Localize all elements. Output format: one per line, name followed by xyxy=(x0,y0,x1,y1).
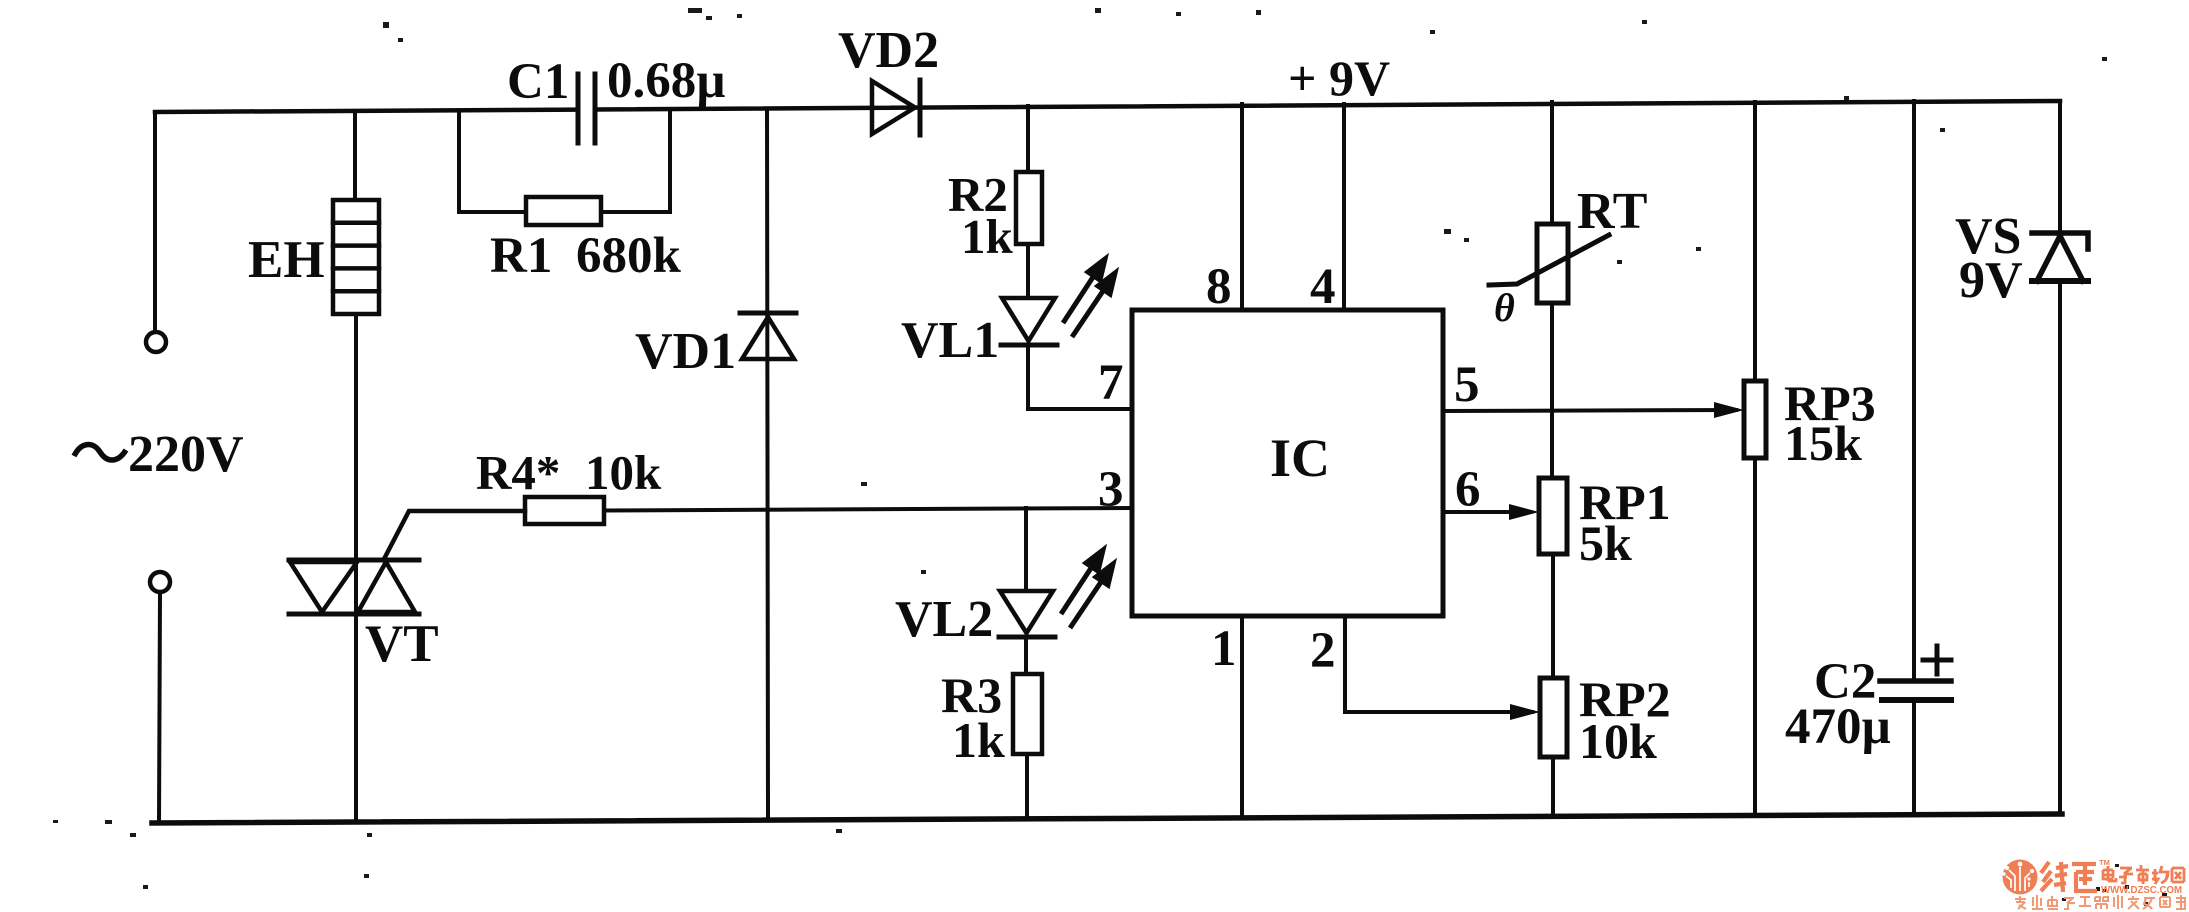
potentiometer RP2 xyxy=(1540,678,1567,757)
svg-text:VT: VT xyxy=(365,615,439,673)
svg-text:220V: 220V xyxy=(128,426,244,483)
thermistor RT lead from top bus xyxy=(1550,102,1554,224)
LED VL2 light arrows xyxy=(1061,550,1113,628)
wire R3 to bottom bus xyxy=(1025,754,1029,818)
svg-text:5k: 5k xyxy=(1579,515,1632,571)
wire EH top lead xyxy=(353,111,357,200)
wire R4 to pin 3 xyxy=(604,508,1132,511)
wire RT to RP1 xyxy=(1550,303,1554,478)
svg-text:2: 2 xyxy=(1310,623,1336,679)
watermark text dianzishichangwang xyxy=(2103,865,2184,884)
wire pin 8 xyxy=(1240,104,1244,310)
svg-text:1: 1 xyxy=(1211,621,1237,677)
svg-text:8: 8 xyxy=(1206,259,1232,315)
arrow pin5 into RP3 xyxy=(1714,402,1744,418)
wire top bus right segment xyxy=(595,101,2060,110)
wire bottom bus xyxy=(152,814,2062,823)
diode VD1 xyxy=(740,313,796,359)
wire VL2 to R3 xyxy=(1024,637,1028,674)
wire EH bottom through triac to bottom bus xyxy=(354,314,358,822)
wire pin 6 to RP1 xyxy=(1443,510,1530,514)
LED VL1 light arrows xyxy=(1063,259,1115,337)
svg-text:WWW.DZSC.COM: WWW.DZSC.COM xyxy=(2101,885,2182,896)
svg-text:IC: IC xyxy=(1270,428,1330,488)
wire C1 right parallel branch xyxy=(601,110,670,212)
svg-text:10k: 10k xyxy=(585,445,662,500)
wire C1 left parallel branch xyxy=(459,111,526,212)
node lower AC terminal xyxy=(150,572,170,592)
svg-text:1k: 1k xyxy=(961,209,1014,264)
wire pin 5 to RP3 xyxy=(1443,410,1736,411)
C2 polarity plus sign xyxy=(1923,646,1951,674)
svg-text:C1: C1 xyxy=(507,54,569,110)
svg-text:R4*: R4* xyxy=(476,445,560,500)
svg-text:5: 5 xyxy=(1454,357,1480,413)
LED VL1 xyxy=(1001,298,1057,345)
diode VD2 xyxy=(872,80,920,135)
wire pin 1 xyxy=(1240,616,1244,818)
label ~220V xyxy=(74,445,126,460)
resistor R2 xyxy=(1016,172,1042,244)
heater EH xyxy=(333,200,379,314)
wire R2 top lead xyxy=(1026,106,1030,172)
wire RP3 top lead xyxy=(1753,102,1757,381)
wire VS to bottom bus xyxy=(2058,281,2062,814)
svg-text:4: 4 xyxy=(1310,259,1336,315)
wire C2 top lead xyxy=(1912,101,1916,681)
svg-text:1k: 1k xyxy=(952,712,1005,768)
svg-text:VD2: VD2 xyxy=(838,22,939,79)
capacitor C2 plates xyxy=(1880,681,1951,700)
resistor R3 xyxy=(1013,674,1042,754)
svg-text:θ: θ xyxy=(1494,285,1515,330)
watermark slogan xyxy=(2015,895,2186,909)
zener VS xyxy=(2032,233,2088,281)
thermistor RT xyxy=(1489,224,1609,303)
svg-text:TM: TM xyxy=(2099,858,2110,867)
arrow pin6 into RP1 xyxy=(1509,504,1539,520)
svg-text:6: 6 xyxy=(1455,462,1481,518)
svg-text:3: 3 xyxy=(1098,462,1124,518)
capacitor C1 plates xyxy=(578,74,595,143)
potentiometer RP3 xyxy=(1744,381,1766,458)
wire lower terminal to bottom bus xyxy=(159,593,160,823)
svg-text:EH: EH xyxy=(248,231,325,289)
svg-text:9V: 9V xyxy=(1959,252,2023,309)
wire VD1 branch vertical xyxy=(767,109,768,818)
wire RP1 to RP2 xyxy=(1551,554,1555,678)
svg-text:0.68µ: 0.68µ xyxy=(607,53,726,109)
triac VT xyxy=(289,511,525,614)
watermark logo circle xyxy=(2002,860,2037,895)
svg-text:10k: 10k xyxy=(1579,713,1657,769)
wire top bus left segment xyxy=(155,110,578,112)
watermark text weiku xyxy=(2041,862,2097,892)
LED VL2 xyxy=(999,591,1055,637)
svg-text:15k: 15k xyxy=(1784,415,1862,471)
resistor R1 xyxy=(526,197,601,225)
wire R2 to VL1 xyxy=(1026,244,1030,298)
wire VL1 to pin 7 xyxy=(1028,345,1132,409)
svg-text:7: 7 xyxy=(1098,355,1124,411)
svg-text:+ 9V: + 9V xyxy=(1288,50,1390,106)
wire VL2 branch top xyxy=(1024,508,1028,591)
svg-text:680k: 680k xyxy=(576,228,682,284)
svg-text:VD1: VD1 xyxy=(635,323,736,380)
wire VS branch vertical xyxy=(2058,101,2062,233)
node upper AC terminal xyxy=(146,332,166,352)
resistor R4 xyxy=(525,497,604,524)
wire RP3 to bottom bus xyxy=(1753,458,1757,816)
potentiometer RP1 xyxy=(1539,478,1567,554)
wire left branch to upper terminal xyxy=(153,112,157,331)
svg-text:RT: RT xyxy=(1577,183,1647,240)
wire C2 to bottom bus xyxy=(1912,700,1916,815)
svg-text:VL2: VL2 xyxy=(895,591,993,648)
wire pin 4 xyxy=(1342,104,1346,310)
svg-text:470µ: 470µ xyxy=(1785,699,1891,755)
op-amp IC box xyxy=(1132,310,1443,616)
wire RP2 to bottom bus xyxy=(1551,757,1555,817)
arrow pin2 into RP2 xyxy=(1510,704,1540,720)
wire pin 2 xyxy=(1345,616,1532,712)
svg-text:R1: R1 xyxy=(490,228,552,284)
svg-text:VL1: VL1 xyxy=(901,312,999,369)
